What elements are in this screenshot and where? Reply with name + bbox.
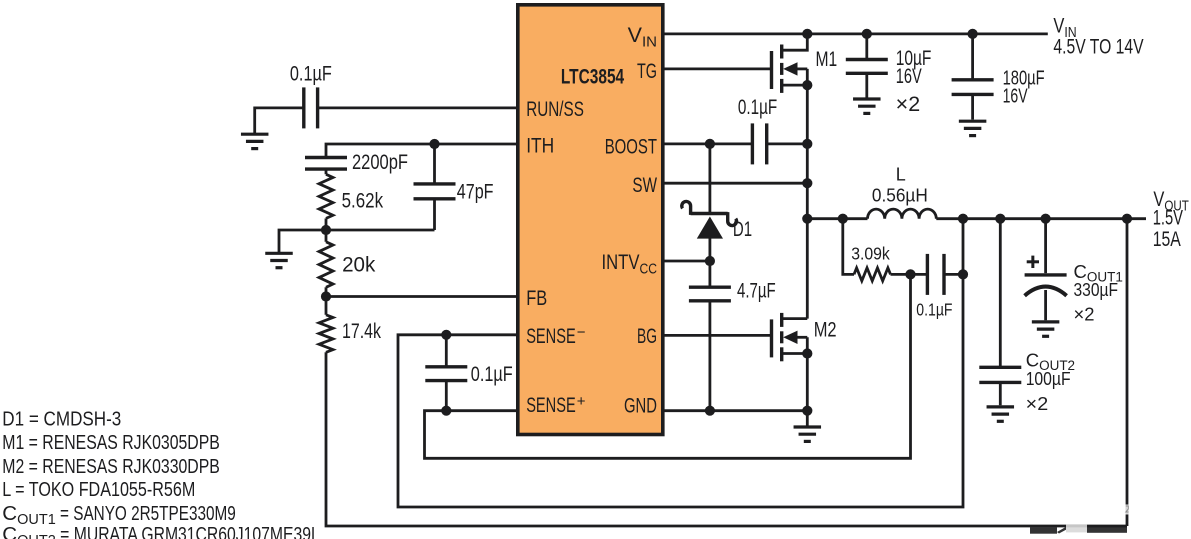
capacitor 2200pF bbox=[305, 158, 347, 170]
wire 3.09k branch from L wire bbox=[843, 219, 854, 275]
node VOUT / COUT1 bbox=[1041, 214, 1051, 224]
node BOOST/D1 bbox=[705, 139, 715, 149]
wire M1 body lead bbox=[797, 68, 808, 71]
svg-text:20k: 20k bbox=[342, 254, 376, 277]
node FB junction bbox=[321, 291, 331, 301]
node SENSE- cap junction top bbox=[441, 330, 451, 340]
resistor 20k bbox=[319, 242, 333, 287]
wire COUT2 top lead bbox=[999, 219, 1002, 368]
svg-text:0.1µF: 0.1µF bbox=[738, 96, 777, 119]
svg-text:×2: ×2 bbox=[1026, 393, 1049, 414]
wire M2 source to ground rail bbox=[806, 337, 809, 410]
wire M1 source stub bbox=[782, 84, 808, 87]
node ITH/47pF junction bbox=[429, 139, 439, 149]
wire RUN/SS from ground corner through to pin bbox=[255, 108, 304, 134]
transistor M2 body arrow bbox=[783, 331, 797, 344]
svg-text:330µF: 330µF bbox=[1074, 279, 1119, 300]
ground at 5.62k/47pF node bbox=[265, 253, 293, 267]
svg-text:M1: M1 bbox=[816, 48, 838, 71]
plus sign COUT1 bbox=[1027, 256, 1039, 268]
wire 20k to FB pin bbox=[326, 287, 517, 296]
ground at RUN/SS cap bbox=[241, 134, 269, 148]
svg-text:0.1µF: 0.1µF bbox=[471, 363, 513, 386]
svg-text:D1 = CMDSH-3: D1 = CMDSH-3 bbox=[2, 408, 121, 431]
svg-text:2200pF: 2200pF bbox=[352, 151, 408, 174]
wire COUT1 top lead bbox=[1044, 219, 1047, 274]
wire power ground stub bbox=[806, 411, 809, 427]
capacitor 10uF 16V x2 bbox=[846, 60, 888, 74]
op-amp controller U1 LTC3854 box bbox=[518, 5, 663, 435]
node 5.62k/20k/ground junction bbox=[321, 225, 331, 235]
wire middle node to ground corner bbox=[279, 230, 435, 253]
svg-text:GND: GND bbox=[624, 393, 657, 417]
svg-text:SW: SW bbox=[632, 173, 657, 197]
capacitor 4.7uF bbox=[689, 287, 731, 301]
node VIN/180uF bbox=[968, 29, 978, 39]
wire DCR cap left lead bbox=[911, 273, 928, 276]
wire cap to RUN/SS pin bbox=[318, 107, 517, 110]
capacitor 0.1uF sense filter bbox=[425, 367, 467, 381]
diode D1 triangle bbox=[697, 217, 723, 239]
node SW pin rail bbox=[802, 178, 812, 188]
wire TG pin to M1 gate bbox=[665, 68, 772, 71]
svg-text:×2: ×2 bbox=[896, 93, 921, 116]
ground at 10uF bbox=[853, 99, 881, 113]
svg-text:M2 = RENESAS RJK0330DPB: M2 = RENESAS RJK0330DPB bbox=[2, 455, 220, 478]
svg-text:M2: M2 bbox=[814, 319, 837, 342]
svg-text:FB: FB bbox=[526, 286, 547, 310]
wire switch rail M1 source to M2 drain bbox=[806, 69, 809, 319]
wire BOOST pin to cap bbox=[665, 142, 753, 145]
node VIN/10uF bbox=[862, 29, 872, 39]
resistor 3.09k bbox=[854, 268, 891, 281]
wire 180uF bottom lead bbox=[971, 94, 974, 119]
svg-text:16V: 16V bbox=[1003, 85, 1028, 107]
inductor L 0.56uH coils bbox=[868, 209, 937, 219]
svg-text:3.09k: 3.09k bbox=[851, 244, 890, 264]
wire D1 anode lead to INTVCC bbox=[709, 238, 712, 261]
wire inductor to VOUT terminal bbox=[936, 217, 1146, 220]
node L wire / 3.09k branch bbox=[838, 214, 848, 224]
wire M2 source stub bbox=[782, 352, 808, 355]
svg-text:16V: 16V bbox=[896, 65, 922, 88]
svg-text:ITH: ITH bbox=[526, 134, 554, 158]
transistor M2 channel segments bbox=[780, 313, 783, 361]
wire M2 body lead bbox=[797, 336, 808, 339]
wire sense cap bottom lead bbox=[445, 381, 448, 411]
transistor M2 gate bar bbox=[770, 319, 773, 357]
wire INTVCC pin bbox=[665, 260, 710, 263]
transistor M1 body arrow bbox=[783, 62, 797, 75]
svg-text:47pF: 47pF bbox=[457, 181, 494, 204]
resistor 5.62k bbox=[319, 174, 333, 218]
node SENSE+ cap junction bottom bbox=[441, 406, 451, 416]
svg-text:1.5V: 1.5V bbox=[1153, 207, 1183, 230]
svg-text:D1: D1 bbox=[733, 218, 752, 241]
wire 47pF bottom bbox=[433, 199, 436, 230]
svg-text:RUN/SS: RUN/SS bbox=[526, 97, 584, 121]
wire 4.7uF top lead bbox=[709, 261, 712, 287]
node INTVCC/D1/4.7uF bbox=[705, 256, 715, 266]
resistor 17.4k bbox=[319, 315, 333, 353]
capacitor COUT2 100uF x2 bbox=[979, 367, 1021, 382]
svg-text:L = TOKO FDA1055-R56M: L = TOKO FDA1055-R56M bbox=[2, 478, 195, 501]
wire 5.62k bottom to 20k top bbox=[325, 218, 328, 241]
capacitor 0.1uF boost bbox=[752, 123, 766, 164]
wire FB to 17.4k bbox=[325, 297, 328, 315]
node DCR sense+ junction bbox=[905, 269, 915, 279]
svg-text:TG: TG bbox=[637, 59, 657, 83]
svg-text:BG: BG bbox=[637, 324, 657, 348]
transistor M1 gate bar bbox=[770, 51, 773, 89]
wire VIN rail bbox=[665, 33, 1048, 36]
wire SW pin to rail bbox=[665, 182, 808, 185]
wire BG pin to M2 gate bbox=[665, 334, 772, 337]
node GND/M2 bbox=[802, 406, 812, 416]
diode D1 schottky cathode bar bbox=[682, 201, 737, 225]
wire COUT2 bottom lead bbox=[999, 382, 1002, 405]
node BOOST cap right bbox=[802, 139, 812, 149]
node inductor takeoff bbox=[802, 214, 812, 224]
wire M2 drain stub bbox=[782, 317, 808, 320]
capacitor 47pF bbox=[414, 184, 456, 199]
capacitor COUT1 330uF x2 polarized bbox=[1025, 275, 1067, 296]
transistor M1 channel segments bbox=[780, 45, 783, 93]
wire ITH pin to 2200pF stub bbox=[326, 144, 517, 158]
node M1 source bbox=[802, 80, 812, 90]
wire 180uF top lead bbox=[971, 34, 974, 80]
wire boost cap to rail bbox=[767, 142, 808, 145]
wire 47pF branch from ITH bbox=[433, 144, 436, 184]
wire sense cap top lead bbox=[445, 335, 448, 367]
wire 3.09k to DCR node bbox=[891, 273, 911, 276]
node VOUT / feedback riser bbox=[1122, 214, 1132, 224]
svg-text:BOOST: BOOST bbox=[605, 134, 657, 158]
wire M1 drain stub bbox=[782, 34, 808, 50]
node M2 source bbox=[802, 348, 812, 358]
ground main power bbox=[794, 427, 822, 441]
capacitor 0.1uF at RUN/SS bbox=[304, 87, 318, 128]
ground at COUT1 bbox=[1032, 322, 1060, 336]
wire 10uF bottom lead bbox=[865, 73, 868, 97]
ground at 180uF bbox=[959, 121, 987, 135]
wire 17.4k down to bottom feedback run bbox=[326, 352, 1127, 526]
svg-text:LTC3854: LTC3854 bbox=[561, 66, 625, 89]
wire D1 cathode lead from BOOST bbox=[709, 144, 712, 212]
wire DCR cap right lead bbox=[944, 273, 963, 276]
node VOUT / COUT2 bbox=[995, 214, 1005, 224]
svg-text:17.4k: 17.4k bbox=[342, 320, 381, 343]
svg-text:×2: ×2 bbox=[1074, 303, 1095, 324]
node VIN/M1 drain bbox=[802, 29, 812, 39]
ground at COUT2 bbox=[987, 407, 1015, 421]
wire 4.7uF bottom lead bbox=[709, 301, 712, 411]
node VOUT / sense riser bbox=[958, 214, 968, 224]
svg-text:4.7µF: 4.7µF bbox=[737, 280, 776, 303]
svg-text:0.1µF: 0.1µF bbox=[290, 63, 332, 86]
node GND/4.7uF bbox=[705, 406, 715, 416]
wire VOUT feedback riser bbox=[1126, 219, 1129, 526]
svg-text:4.5V TO 14V: 4.5V TO 14V bbox=[1053, 36, 1143, 59]
wire 2200pF to 5.62k bbox=[325, 169, 328, 174]
svg-text:M1 = RENESAS RJK0305DPB: M1 = RENESAS RJK0305DPB bbox=[2, 431, 220, 454]
svg-text:100µF: 100µF bbox=[1026, 368, 1071, 389]
svg-text:15A: 15A bbox=[1153, 228, 1181, 251]
wire rail to inductor bbox=[807, 217, 867, 220]
wire GND pin to M2 source bbox=[665, 409, 808, 412]
wire COUT1 bottom lead bbox=[1044, 290, 1047, 320]
wire 10uF top lead bbox=[865, 34, 868, 60]
svg-text:0.1µF: 0.1µF bbox=[916, 299, 952, 319]
capacitor 180uF 16V bbox=[952, 80, 994, 95]
wire SENSE- pin loop to VOUT sense point bbox=[398, 219, 963, 507]
svg-text:5.62k: 5.62k bbox=[342, 189, 384, 212]
capacitor 0.1uF DCR sense bbox=[927, 254, 944, 295]
svg-text:0.56µH: 0.56µH bbox=[872, 185, 928, 205]
svg-text:L: L bbox=[896, 165, 906, 185]
node DCR sense- junction bbox=[958, 269, 968, 279]
wire SENSE+ pin loop to DCR node bbox=[425, 274, 911, 458]
